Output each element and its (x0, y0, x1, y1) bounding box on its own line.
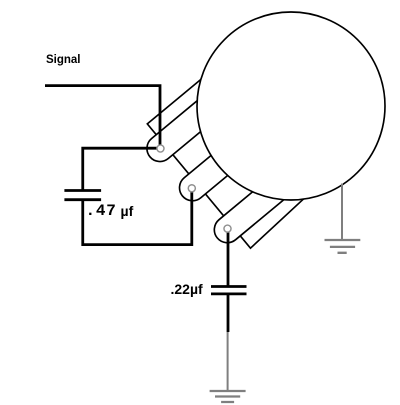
capacitor C2 .22uf plates (211, 287, 247, 294)
ground GND1 (bottom) (210, 391, 246, 402)
pot wafer strip (147, 72, 313, 249)
wire: to bottom ground (gray) (227, 332, 229, 391)
pot lug 3 body (209, 163, 303, 248)
capacitor C1 .47uf plates (64, 191, 101, 200)
lug2 hole (188, 185, 195, 192)
wire: pot case to right ground (gray) (341, 184, 343, 241)
label .47 uf (86, 202, 117, 220)
wire: cap C1 loop (lug1 - C1 - lug2) (83, 148, 160, 190)
lug1 hole (157, 145, 164, 152)
pot lug 2 body (174, 122, 268, 207)
wire: Signal input to lug1 (45, 86, 160, 149)
pot body circle (197, 12, 385, 200)
potentiometer R1 (body drawn rotated 50.3deg) (133, 72, 314, 261)
label Signal (46, 54, 81, 66)
wire: C1 bottom to lug2 (83, 188, 192, 244)
ground GND2 (right) (325, 240, 361, 253)
label .22uf (171, 281, 203, 297)
lug3 hole (224, 225, 231, 232)
wire: lug3 down to C2 (227, 229, 230, 287)
pot lug 1 body (142, 82, 236, 167)
wire: C2 bottom (black part) (227, 294, 230, 332)
